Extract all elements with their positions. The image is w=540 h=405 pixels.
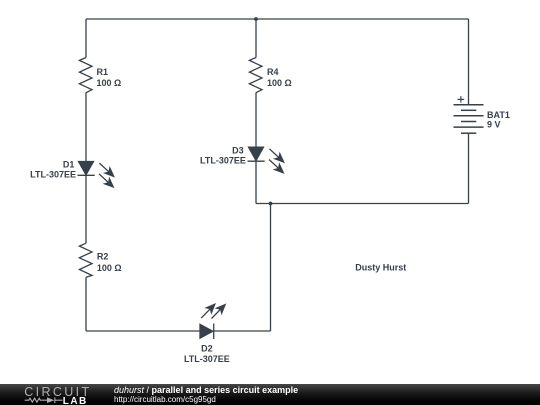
- svg-text:100 Ω: 100 Ω: [267, 78, 292, 88]
- resistor R1: [79, 58, 92, 93]
- wire R1 to D1: [85, 93, 87, 162]
- svg-text:LTL-307EE: LTL-307EE: [200, 156, 246, 166]
- svg-text:100 Ω: 100 Ω: [97, 263, 122, 273]
- svg-text:LTL-307EE: LTL-307EE: [30, 170, 76, 180]
- CircuitLab logo: [24, 384, 94, 405]
- svg-text:D1: D1: [63, 159, 75, 169]
- wire R4 to D3: [255, 93, 257, 148]
- wire middle horizontal: [256, 203, 469, 205]
- svg-text:D2: D2: [201, 344, 213, 354]
- LED D1: [78, 161, 117, 190]
- wire middle branch upper: [255, 19, 257, 58]
- svg-text:R1: R1: [97, 67, 109, 77]
- wire bottom horizontal right: [214, 330, 271, 332]
- wire top horizontal: [86, 18, 469, 20]
- svg-text:LAB: LAB: [63, 396, 88, 405]
- wire D1 to R2: [85, 175, 87, 243]
- footer text: [113, 383, 115, 385]
- resistor R2: [79, 243, 92, 277]
- node junction middle: [269, 202, 273, 206]
- svg-text:Dusty Hurst: Dusty Hurst: [355, 262, 406, 272]
- wire right branch upper: [468, 19, 470, 105]
- battery plus sign: [458, 96, 465, 102]
- svg-text:D3: D3: [232, 146, 244, 156]
- wire R2 to bottom: [85, 277, 87, 331]
- svg-text:R4: R4: [267, 67, 279, 77]
- wire D3 down: [255, 161, 257, 203]
- LED D3: [248, 146, 287, 175]
- wire bottom horizontal left: [86, 330, 200, 332]
- resistor R4: [249, 58, 262, 93]
- svg-text:9 V: 9 V: [487, 120, 501, 130]
- wire mid-right vertical: [270, 204, 272, 332]
- node junction top: [254, 17, 258, 21]
- wire battery down: [468, 133, 470, 203]
- LED D2: [199, 302, 228, 339]
- wire left branch upper: [85, 19, 87, 58]
- footer bar: [0, 384, 540, 405]
- svg-text:LTL-307EE: LTL-307EE: [184, 354, 230, 364]
- svg-text:100 Ω: 100 Ω: [97, 78, 122, 88]
- svg-text:R2: R2: [97, 252, 109, 262]
- battery BAT1: [454, 105, 484, 133]
